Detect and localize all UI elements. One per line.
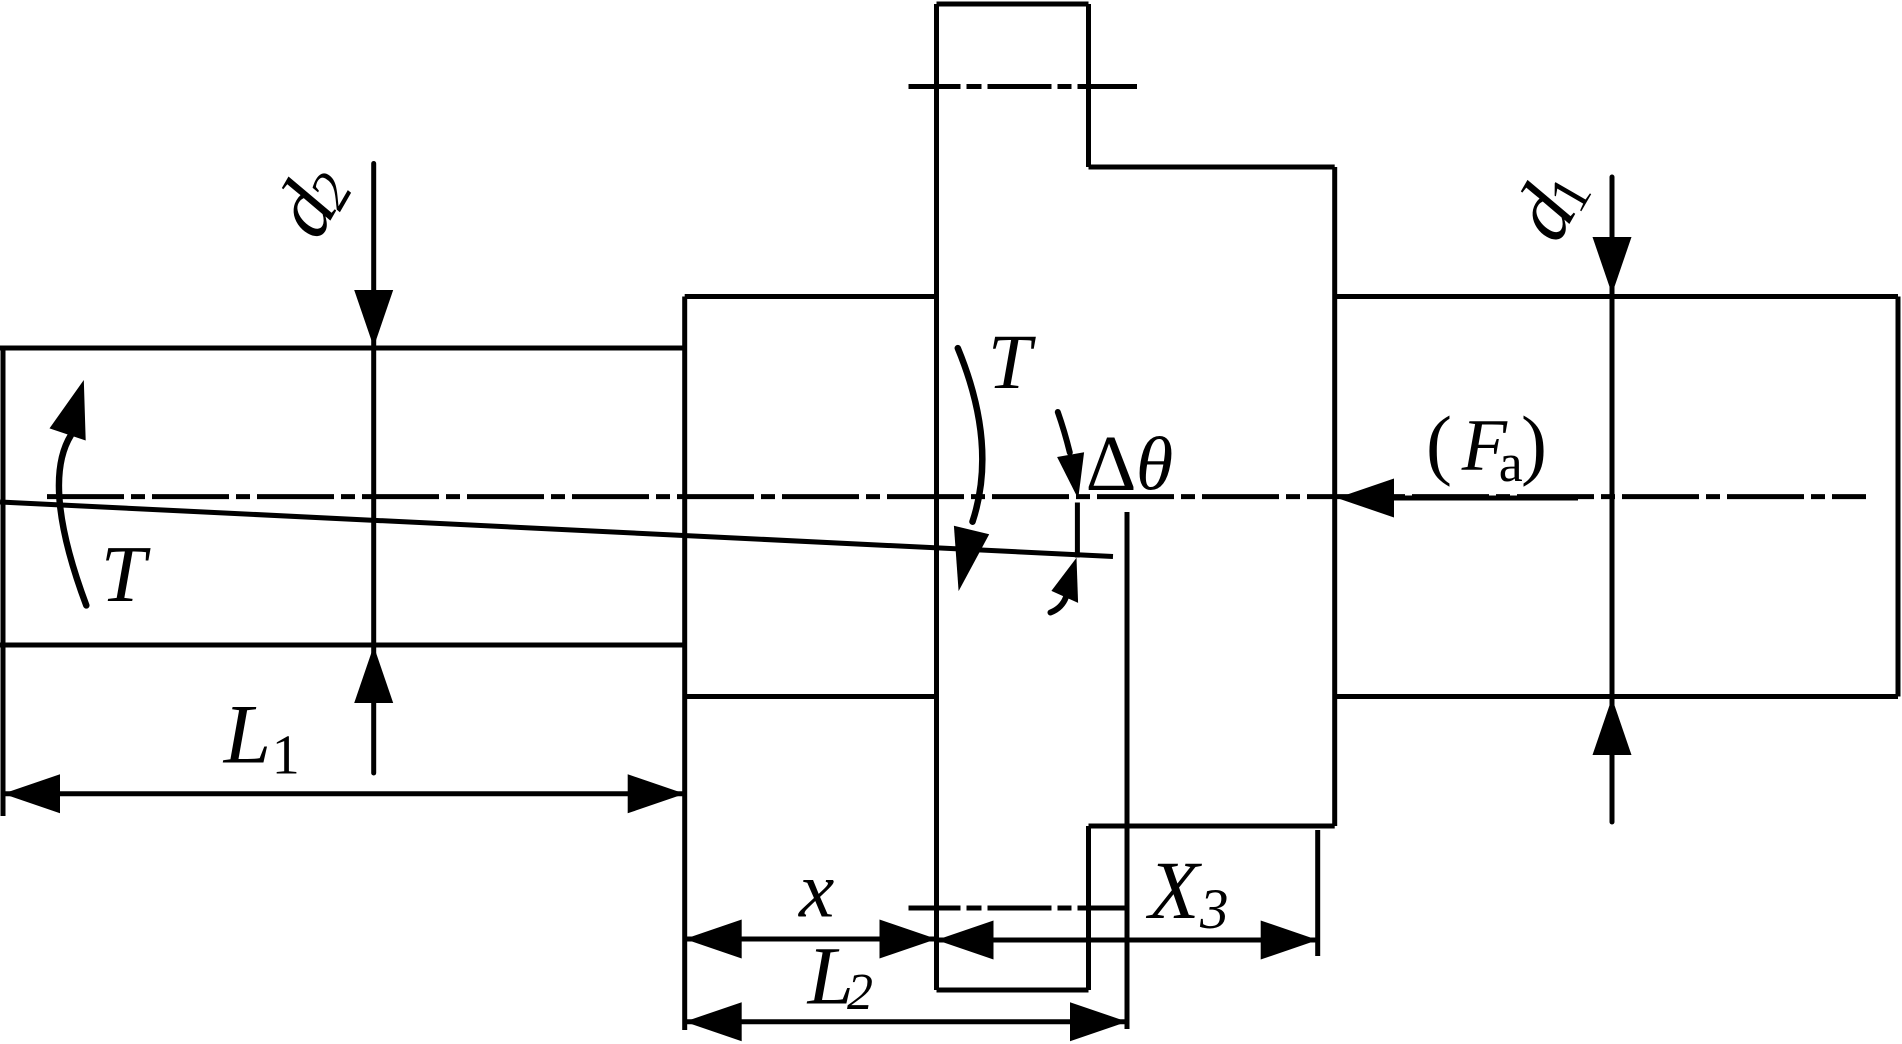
svg-text:1: 1 — [272, 724, 300, 786]
svg-text:L: L — [223, 688, 271, 782]
svg-text:2: 2 — [847, 964, 873, 1021]
svg-text:Δ: Δ — [1086, 421, 1137, 508]
svg-text:a: a — [1499, 433, 1523, 493]
svg-text:T: T — [988, 318, 1036, 405]
svg-text:(: ( — [1426, 400, 1452, 487]
svg-text:X: X — [1146, 844, 1203, 936]
svg-text:): ) — [1521, 400, 1547, 487]
svg-text:x: x — [798, 847, 834, 935]
svg-text:T: T — [101, 529, 151, 619]
svg-text:θ: θ — [1136, 423, 1173, 507]
svg-text:3: 3 — [1199, 878, 1229, 941]
